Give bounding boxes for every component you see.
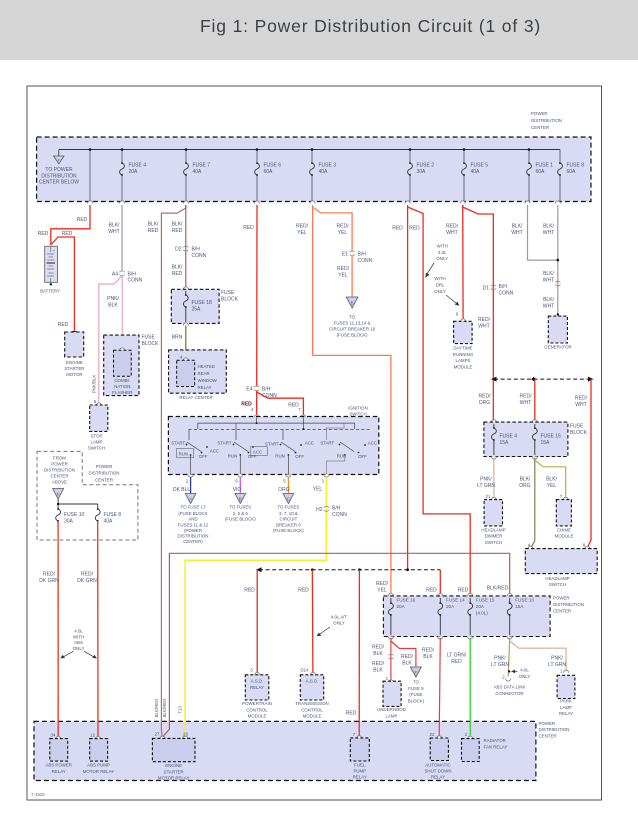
ignition switch contact group 1: [171, 429, 219, 474]
svg-text:YEL: YEL: [313, 487, 323, 493]
svg-text:CENTER: CENTER: [95, 477, 113, 482]
svg-text:STOP: STOP: [91, 434, 103, 439]
svg-text:ACC: ACC: [368, 441, 377, 446]
svg-text:60A: 60A: [567, 169, 577, 175]
relay center box: [169, 350, 227, 400]
svg-text:CENTER: CENTER: [539, 733, 557, 738]
svg-text:IGNITION: IGNITION: [348, 406, 368, 411]
ignition switch internals: [188, 418, 369, 430]
svg-text:BLOCK): BLOCK): [408, 698, 425, 703]
svg-text:FUSE 13: FUSE 13: [515, 598, 534, 603]
svg-text:DISTRIBUTION: DISTRIBUTION: [553, 602, 584, 607]
engine starter motor relay: [152, 732, 195, 781]
wire blk/wht: fuse 1 joins fuse 8: [528, 205, 558, 260]
svg-text:4.0L: 4.0L: [74, 629, 83, 634]
svg-text:4.0L A/T: 4.0L A/T: [331, 615, 348, 620]
svg-text:B/H: B/H: [358, 252, 367, 258]
svg-text:DISTRIBUTION: DISTRIBUTION: [89, 471, 120, 476]
svg-text:RED/: RED/: [296, 224, 309, 230]
svg-text:BLOCK: BLOCK: [221, 297, 239, 303]
svg-text:DK BLU: DK BLU: [173, 487, 191, 493]
svg-text:4.0L: 4.0L: [520, 668, 529, 673]
svg-text:STARTER: STARTER: [64, 366, 84, 371]
svg-text:BLK: BLK: [373, 668, 383, 674]
triangle A pin 2: [178, 494, 209, 545]
svg-text:3, 7, 10 &: 3, 7, 10 &: [279, 511, 298, 516]
svg-text:DISTRIBUTION: DISTRIBUTION: [41, 173, 77, 179]
svg-text:LT GRN: LT GRN: [491, 662, 509, 668]
ignition bottom pin connectors: [186, 475, 329, 484]
wire red: fuse 2 branch to dashed junction: [407, 205, 409, 570]
svg-text:YEL: YEL: [338, 273, 348, 279]
note 4.0L with abs only: [60, 629, 97, 659]
wire red: dashed line to fuel pump relay pin 7: [358, 570, 360, 736]
svg-text:LAMP: LAMP: [560, 705, 572, 710]
svg-text:BLK/: BLK/: [543, 297, 554, 303]
svg-text:FUSE 3: FUSE 3: [319, 163, 337, 169]
svg-text:(4.0L): (4.0L): [476, 611, 488, 616]
svg-text:FUSE 7: FUSE 7: [193, 163, 211, 169]
svg-text:B/H: B/H: [499, 284, 508, 290]
wire blk/wht: fuse 8 to generator: [557, 205, 559, 315]
svg-text:CONN: CONN: [358, 258, 373, 264]
svg-text:POWERTRAIN: POWERTRAIN: [242, 701, 272, 706]
svg-text:ONLY: ONLY: [434, 289, 446, 294]
svg-text:E4: E4: [246, 387, 252, 393]
wire blk/org: fuse 15 to headlamp switch pin 4: [531, 458, 535, 548]
svg-text:A4: A4: [112, 272, 118, 278]
svg-text:LAMPS: LAMPS: [456, 358, 471, 363]
dashed connector line (right): [494, 378, 588, 380]
svg-text:SWITCH: SWITCH: [88, 446, 105, 451]
svg-text:27: 27: [155, 732, 160, 737]
svg-text:TO: TO: [349, 315, 356, 320]
wire yel: pin 1 to starter relay pin 26: [185, 477, 326, 738]
svg-text:POWER: POWER: [96, 464, 113, 469]
svg-text:YEL: YEL: [547, 483, 557, 489]
svg-text:DISTRIBUTION: DISTRIBUTION: [531, 118, 562, 123]
svg-text:(FUSE BLOCK: (FUSE BLOCK: [178, 511, 207, 516]
fuse 13: [507, 598, 534, 636]
wire pnk/lt grn: fuse 13 to abs data link connector: [508, 638, 510, 677]
note with drl only: [434, 276, 459, 306]
fuse block (combination flasher): [104, 335, 159, 396]
svg-text:FUEL: FUEL: [354, 763, 366, 768]
svg-text:POWER: POWER: [51, 462, 68, 467]
svg-text:RED: RED: [458, 588, 469, 594]
svg-text:FUSE 8: FUSE 8: [567, 163, 585, 169]
svg-text:POWER: POWER: [531, 111, 548, 116]
park lamp relay: [557, 669, 575, 717]
triangle F to fuse 9: [408, 667, 425, 703]
svg-text:BLK/: BLK/: [543, 224, 554, 230]
svg-text:BLK/: BLK/: [543, 271, 554, 277]
svg-text:PNK/: PNK/: [480, 477, 492, 483]
svg-text:FUSE 4: FUSE 4: [129, 163, 147, 169]
svg-text:30A: 30A: [64, 519, 74, 525]
svg-text:C: C: [287, 497, 290, 502]
svg-text:FUSE 10: FUSE 10: [64, 512, 85, 518]
svg-text:DRL: DRL: [436, 283, 445, 288]
wire dk blu: pin 2: [190, 477, 192, 493]
ignition switch contact group 3: [265, 429, 314, 474]
svg-text:34: 34: [51, 733, 56, 738]
fuse 8: [558, 162, 585, 176]
wire blk/wht: fuse 4 to A4 conn: [121, 205, 123, 271]
svg-text:BLK/: BLK/: [109, 223, 120, 229]
svg-text:WHT: WHT: [543, 278, 554, 284]
note 4.0L A/T only: [317, 615, 348, 637]
wire red/yel: fuse 3 to fuse 16 (pdc lower): [313, 205, 391, 594]
underhood lamp: [377, 676, 406, 718]
svg-text:FUSE 15: FUSE 15: [541, 434, 562, 440]
svg-text:WHT: WHT: [520, 400, 531, 406]
svg-text:FLASHER: FLASHER: [112, 390, 132, 395]
svg-text:CENTER: CENTER: [50, 474, 68, 479]
svg-text:WHT: WHT: [575, 402, 586, 408]
svg-text:CENTER: CENTER: [531, 125, 549, 130]
svg-text:OFF: OFF: [358, 454, 367, 459]
wire red: pdc to battery: [51, 205, 90, 245]
svg-text:MODULE: MODULE: [248, 714, 267, 719]
svg-text:RELAY: RELAY: [559, 711, 573, 716]
svg-text:ONLY: ONLY: [333, 621, 345, 626]
svg-text:RED: RED: [346, 711, 357, 717]
svg-text:60A: 60A: [264, 169, 274, 175]
note with 4.0L only: [425, 244, 448, 278]
svg-text:COMBI-: COMBI-: [114, 378, 130, 383]
svg-text:B/H: B/H: [332, 506, 341, 512]
svg-text:21: 21: [486, 494, 491, 499]
svg-text:BLK: BLK: [108, 303, 118, 309]
svg-text:RED/: RED/: [372, 645, 385, 651]
svg-text:CONTROL: CONTROL: [301, 707, 323, 712]
connector D2 B/H: [175, 246, 207, 259]
svg-text:RED: RED: [148, 228, 159, 234]
engine starter motor: [64, 331, 84, 377]
stop lamp switch: [88, 399, 108, 451]
svg-text:F: F: [57, 492, 60, 497]
svg-text:BLK: BLK: [373, 651, 383, 657]
wire brn: fuse 18 to heated rear window relay: [172, 323, 189, 359]
wire red: dashed line to A.S.D. relay (transmission control module): [311, 570, 314, 674]
svg-text:START: START: [265, 442, 279, 447]
power distribution center label (left): [89, 464, 120, 482]
svg-text:RED: RED: [58, 322, 69, 328]
svg-text:FUSES 11,13,14 &: FUSES 11,13,14 &: [334, 321, 371, 326]
svg-text:RELAY: RELAY: [198, 385, 212, 390]
combination flasher: [112, 348, 132, 395]
svg-text:RED/: RED/: [81, 572, 94, 578]
svg-text:RED/: RED/: [446, 224, 459, 230]
svg-text:WITH: WITH: [73, 634, 84, 639]
svg-text:(FUSE BLOCK): (FUSE BLOCK): [225, 517, 256, 522]
svg-text:PNK/: PNK/: [494, 656, 506, 662]
svg-text:FUSE 5: FUSE 5: [471, 163, 489, 169]
svg-text:RED/: RED/: [401, 654, 414, 660]
ignition switch box: [168, 415, 378, 475]
ignition switch contact group 2: [217, 423, 267, 474]
svg-text:25A: 25A: [192, 307, 202, 313]
wire pnk/lt grn: fuse 13 to park lamp relay: [510, 641, 566, 671]
triangle B pin 6: [225, 494, 256, 522]
svg-text:40A: 40A: [104, 519, 114, 525]
svg-text:WHT: WHT: [108, 229, 119, 235]
svg-text:RELAY: RELAY: [431, 775, 445, 780]
fuse block (fuse 4 / fuse 15): [484, 420, 588, 457]
svg-text:STARTER: STARTER: [164, 769, 184, 774]
bus wire: [59, 150, 560, 202]
svg-text:TRANSMISSION: TRANSMISSION: [295, 701, 328, 706]
svg-text:RED: RED: [77, 217, 88, 223]
svg-text:RED: RED: [392, 226, 403, 232]
wire red/yel: fuse 3 to E1 conn to triangle D: [313, 207, 353, 252]
svg-text:22: 22: [430, 732, 435, 737]
svg-text:POWER: POWER: [539, 721, 556, 726]
power distribution center box (top): [37, 137, 591, 202]
wire red/wht: fuse 5 to D1 conn to fuse 4 (15A): [463, 207, 494, 421]
battery: [40, 246, 60, 293]
svg-text:RUN: RUN: [228, 454, 238, 459]
svg-text:OFF: OFF: [199, 454, 208, 459]
svg-text:WHT: WHT: [478, 324, 489, 330]
svg-text:MODULE: MODULE: [555, 534, 574, 539]
svg-text:DK GRN: DK GRN: [39, 578, 59, 584]
svg-text:SWITCH: SWITCH: [349, 412, 366, 417]
wire red: fuse 2 branch to fuse 15 (pdc lower): [408, 207, 471, 594]
fuse 4: [120, 162, 147, 176]
wire blk/red: fuse 13 to engine starter motor relay pin 27: [163, 553, 510, 736]
svg-text:RED/: RED/: [337, 266, 350, 272]
svg-text:WHT: WHT: [511, 230, 522, 236]
svg-text:ENGINE: ENGINE: [165, 763, 182, 768]
triangle D: [329, 297, 376, 338]
svg-text:B: B: [239, 497, 242, 502]
wire red/blk: fuse 14 to automatic shut down relay pin 22: [439, 638, 440, 736]
wire lt grn/red: fuse 15 to radiator fan relay pin 2: [469, 638, 471, 736]
svg-text:40A: 40A: [319, 169, 329, 175]
svg-text:TO: TO: [413, 680, 420, 685]
svg-text:RED: RED: [298, 588, 309, 594]
abs pump motor relay: [83, 733, 115, 774]
svg-text:FUSE 6: FUSE 6: [264, 163, 282, 169]
radiator fan relay: [462, 732, 508, 762]
fuse 15 (15A): [532, 424, 561, 455]
svg-text:FUSE 14: FUSE 14: [446, 598, 465, 603]
svg-text:FUSE: FUSE: [221, 290, 235, 296]
svg-text:PUMP: PUMP: [353, 769, 366, 774]
fuse 6: [255, 162, 282, 176]
svg-text:FUSE 18: FUSE 18: [192, 300, 213, 306]
svg-text:BLK/: BLK/: [546, 477, 557, 483]
fuse 16: [389, 598, 416, 636]
svg-text:7-1525: 7-1525: [31, 792, 45, 797]
svg-text:ONLY: ONLY: [519, 674, 531, 679]
fuse block (fuse 18): [171, 287, 238, 324]
svg-text:FUSE 4: FUSE 4: [500, 434, 518, 440]
svg-text:F: F: [415, 670, 418, 675]
fuse 7: [184, 162, 211, 176]
svg-text:FUSE: FUSE: [142, 335, 156, 341]
svg-text:RUN: RUN: [179, 452, 189, 457]
svg-text:START: START: [171, 441, 185, 446]
svg-text:RELAY: RELAY: [353, 775, 367, 780]
connector H2 B/H: [316, 506, 347, 519]
svg-text:UNDERHOOD: UNDERHOOD: [377, 707, 406, 712]
wire blk/yel: fuse 15 to chime module: [535, 460, 566, 498]
svg-text:RED: RED: [38, 231, 49, 237]
svg-text:DK GRN: DK GRN: [77, 578, 97, 584]
svg-text:RED: RED: [451, 659, 462, 665]
wire red/dk grn: fuse 8 to abs pump motor relay: [97, 521, 99, 738]
svg-text:START: START: [320, 441, 334, 446]
svg-text:TO POWER: TO POWER: [45, 167, 73, 173]
svg-text:A.S.D.: A.S.D.: [306, 679, 319, 684]
svg-text:TO FUSES: TO FUSES: [277, 505, 299, 510]
svg-text:4.0L: 4.0L: [438, 250, 447, 255]
bus junction dots: [89, 148, 531, 151]
fuse 1: [527, 162, 554, 176]
svg-text:SHUT DOWN: SHUT DOWN: [425, 769, 452, 774]
svg-text:RADIATOR: RADIATOR: [484, 738, 506, 743]
triangle F from PDC above: [53, 489, 64, 500]
wire pnk/lt grn: fuse 4 to headlamp dimmer switch: [493, 458, 495, 498]
svg-text:LT GRN: LT GRN: [548, 662, 566, 668]
svg-text:BREAKER 6: BREAKER 6: [276, 522, 301, 527]
abs data link connector: [494, 675, 526, 696]
fuse 8 (40A): [95, 508, 121, 525]
svg-text:CONN: CONN: [192, 253, 207, 259]
fuse 5: [462, 162, 489, 176]
svg-text:FUSE 1: FUSE 1: [536, 163, 554, 169]
svg-text:ABOVE: ABOVE: [52, 480, 67, 485]
inline connector on generator wire: [555, 281, 560, 286]
svg-text:TO FUSES: TO FUSES: [229, 505, 251, 510]
connector A4 B/H: [112, 271, 143, 284]
svg-text:RELAY: RELAY: [52, 769, 66, 774]
svg-text:RED/: RED/: [422, 648, 435, 654]
svg-text:20A: 20A: [446, 604, 455, 609]
svg-text:A: A: [189, 497, 192, 502]
svg-text:BRN: BRN: [172, 335, 183, 341]
outer frame: [27, 86, 602, 800]
svg-text:PNK/: PNK/: [551, 656, 563, 662]
power distribution center box (lower): [383, 593, 584, 636]
svg-text:WINDOW: WINDOW: [198, 378, 218, 383]
svg-text:FROM: FROM: [53, 456, 66, 461]
svg-text:CIRCUIT: CIRCUIT: [279, 517, 297, 522]
svg-text:RED/: RED/: [478, 317, 491, 323]
svg-text:DISTRIBUTION: DISTRIBUTION: [44, 468, 75, 473]
svg-text:FAN RELAY: FAN RELAY: [484, 744, 508, 749]
svg-text:B/H: B/H: [192, 247, 201, 253]
svg-text:20A: 20A: [476, 604, 485, 609]
svg-text:20A: 20A: [397, 604, 406, 609]
svg-text:H2: H2: [316, 507, 323, 513]
svg-text:SWITCH: SWITCH: [549, 582, 566, 587]
svg-text:CIRCUIT BREAKER 16: CIRCUIT BREAKER 16: [329, 327, 376, 332]
svg-text:RED: RED: [244, 588, 255, 594]
svg-text:CENTER BELOW: CENTER BELOW: [39, 180, 79, 186]
svg-text:LT GRN: LT GRN: [477, 483, 495, 489]
daytime running lamps module: [453, 312, 474, 370]
wire red/yel: E1 to triangle D: [351, 256, 353, 297]
wire org: pin 5: [287, 477, 289, 493]
connector D1 B/H: [483, 284, 514, 297]
svg-text:LT GRN/: LT GRN/: [447, 653, 467, 659]
svg-text:WITH: WITH: [434, 276, 445, 281]
svg-text:T13: T13: [178, 706, 183, 714]
wire blk/red: fuse 7 left branch to starter relay pin 27: [161, 205, 185, 736]
svg-text:BLK/: BLK/: [520, 477, 531, 483]
svg-text:RED/: RED/: [520, 394, 533, 400]
svg-text:FUSES 11 & 12: FUSES 11 & 12: [178, 522, 209, 527]
svg-text:AND: AND: [188, 517, 197, 522]
A.S.D. relay (powertrain control module): [242, 668, 272, 719]
svg-text:RELAY CENTER: RELAY CENTER: [179, 395, 212, 400]
ignition switch contact group 4: [320, 423, 377, 474]
svg-text:CHIME: CHIME: [557, 528, 571, 533]
wire red: E4 to ignition pin 4: [256, 391, 258, 416]
svg-text:DISTRIBUTION: DISTRIBUTION: [539, 727, 570, 732]
svg-text:ORG: ORG: [278, 487, 290, 493]
svg-text:ABS PUMP: ABS PUMP: [87, 763, 110, 768]
svg-text:ABS: ABS: [74, 640, 83, 645]
svg-text:CONTROL: CONTROL: [246, 707, 268, 712]
svg-text:RUN: RUN: [275, 454, 285, 459]
svg-text:REAR: REAR: [198, 371, 210, 376]
svg-text:(FUSE BLOCK): (FUSE BLOCK): [337, 333, 368, 338]
from power distribution center above (dashed region): [37, 451, 138, 540]
svg-text:MOTOR RELAY: MOTOR RELAY: [83, 769, 115, 774]
svg-text:30A: 30A: [417, 169, 427, 175]
svg-text:BLK/RED: BLK/RED: [162, 699, 167, 718]
svg-text:CONN: CONN: [332, 512, 347, 518]
headlamp dimmer switch: [481, 494, 505, 545]
svg-text:CONNECTOR: CONNECTOR: [495, 691, 523, 696]
svg-text:START: START: [217, 441, 231, 446]
svg-text:BLK/: BLK/: [512, 224, 523, 230]
svg-text:BLK/: BLK/: [148, 222, 159, 228]
wire red/wht: dashed line to fuse 15 (15A): [534, 379, 536, 420]
dashed connector line (lower): [259, 569, 440, 571]
svg-text:FUSE 9: FUSE 9: [408, 686, 424, 691]
svg-text:60A: 60A: [536, 169, 546, 175]
svg-text:ACC: ACC: [210, 449, 219, 454]
wire red: fuse 6 to E4 conn: [256, 205, 258, 387]
heated rear window relay: [177, 355, 218, 391]
svg-text:(FUSE: (FUSE: [409, 692, 422, 697]
svg-text:PNK/BLK: PNK/BLK: [92, 375, 97, 394]
wire vio: pin 6: [239, 477, 241, 493]
abs power relay: [45, 733, 72, 774]
svg-text:B: B: [351, 301, 354, 306]
connector E4 B/H: [246, 386, 277, 399]
svg-text:FUSE 15: FUSE 15: [476, 598, 495, 603]
svg-text:GENERATOR: GENERATOR: [544, 345, 571, 350]
fuel pump relay: [350, 732, 369, 780]
svg-text:RED: RED: [243, 225, 254, 231]
svg-text:FUSE 16: FUSE 16: [397, 598, 416, 603]
fuse 2: [408, 162, 435, 176]
svg-text:MOTOR RELAY: MOTOR RELAY: [158, 776, 190, 781]
svg-text:DIMMER: DIMMER: [485, 534, 503, 539]
svg-text:ENGINE: ENGINE: [66, 360, 83, 365]
svg-text:E1: E1: [342, 252, 348, 258]
fuse 18: [183, 291, 212, 322]
svg-text:(POWER: (POWER: [184, 528, 202, 533]
wire pnk/blk: A4 conn to combination flasher: [121, 276, 123, 349]
